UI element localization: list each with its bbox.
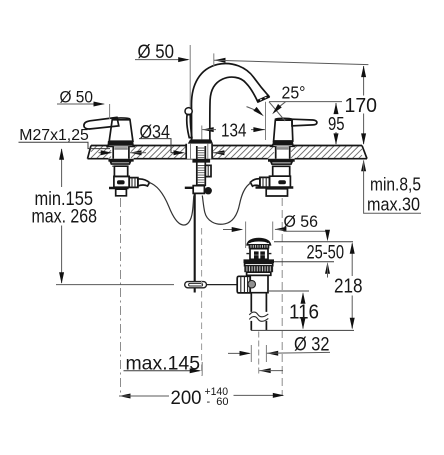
- drain tailpipe lower: [251, 321, 266, 330]
- right valve handle bell: [271, 118, 293, 146]
- spout gooseneck tube: [192, 64, 269, 141]
- Ø34 leader and arrows: [99, 139, 226, 156]
- spout backnut below deck: [192, 159, 210, 163]
- 25-degree arc arrowheads: [280, 102, 286, 107]
- spout base escutcheon at deck: [188, 140, 213, 144]
- pop-up rod extension dashed line: [201, 228, 203, 376]
- left valve block with slot: [114, 176, 129, 187]
- pop-up drain cap dome: [247, 239, 270, 245]
- svg-text:Ø 56: Ø 56: [284, 213, 319, 231]
- svg-text:218: 218: [334, 276, 363, 298]
- svg-text:134: 134: [221, 120, 247, 140]
- drain neck with holes: [246, 249, 271, 260]
- right valve bottom nut: [266, 189, 287, 196]
- spout side nipple: [205, 165, 211, 176]
- dimension max.145: [124, 362, 203, 376]
- drain centerline below pipe (dashed): [258, 332, 260, 375]
- dimension 95 vertical: [334, 103, 339, 145]
- pop-up knob on spout: [185, 108, 192, 138]
- drain tee body: [250, 275, 268, 292]
- right valve shank through deck: [275, 146, 290, 158]
- right valve centerline (dashed): [281, 198, 283, 395]
- deck bottom line: [88, 158, 368, 160]
- svg-text:min.8,5: min.8,5: [370, 175, 421, 195]
- drain ring below nut: [247, 272, 271, 275]
- pop-up rod ball joint: [205, 187, 212, 194]
- right valve block with slot: [270, 176, 291, 187]
- deck slab outline: [88, 146, 368, 159]
- svg-text:Ø34: Ø34: [140, 122, 171, 142]
- svg-text:Ø 50: Ø 50: [138, 42, 175, 63]
- dimension 134: [202, 126, 265, 140]
- 95 reference line at handle top level: [269, 101, 342, 103]
- arrow at drain centerline (rod-to-drain reference): [259, 368, 283, 373]
- left valve side outlet hex: [129, 178, 149, 188]
- left valve centerline (dash-dot): [120, 198, 122, 393]
- deck top line: [91, 145, 362, 147]
- svg-text:Ø 32: Ø 32: [294, 335, 330, 356]
- svg-text:200: 200: [171, 387, 202, 409]
- drain rod clamp nut on left: [237, 276, 255, 293]
- min.8,5/max.30 bracket: [361, 160, 421, 214]
- dimension 170 vertical: [361, 66, 366, 145]
- left valve backnut below deck: [108, 159, 133, 167]
- horizontal pop-up lever rod to drain: [207, 284, 238, 286]
- drain tailpipe upper: [251, 293, 266, 312]
- dimension 116 vertical: [301, 292, 306, 329]
- 116 reference line from drain body: [268, 290, 309, 292]
- svg-text:170: 170: [345, 95, 378, 117]
- flexible hose from left valve to spout: [149, 182, 194, 225]
- left valve bottom flange: [109, 187, 129, 189]
- left valve shank through deck: [113, 146, 130, 158]
- right valve backnut below deck: [268, 159, 295, 167]
- dimension Ø56: [223, 222, 330, 249]
- svg-text:max. 268: max. 268: [32, 206, 98, 227]
- dimension 200 with tolerances: [119, 393, 284, 399]
- dimension top Ø50: label line and arrows: [135, 45, 368, 107]
- left valve handle bell: [107, 118, 133, 146]
- 25-50 upper line A: [274, 241, 353, 243]
- 25-50 lower line B: [274, 261, 334, 263]
- dimension 218 vertical: [350, 242, 355, 329]
- svg-text:25-50: 25-50: [307, 242, 345, 263]
- dimension left Ø50 leader: [57, 102, 110, 120]
- drain washer below flange: [245, 263, 273, 266]
- pipe break squiggle: [249, 312, 268, 321]
- flexible hose from right valve to spout: [202, 183, 251, 224]
- deck left cut edge: [88, 146, 92, 159]
- countertop deck hatching: [91, 146, 362, 159]
- pop-up vertical rod: [194, 194, 196, 293]
- svg-text:25°: 25°: [282, 83, 306, 103]
- svg-text:Ø 50: Ø 50: [60, 89, 94, 107]
- right valve body cylinder: [273, 166, 290, 176]
- left valve lever: [84, 117, 119, 129]
- left valve body cylinder: [114, 166, 127, 176]
- right valve lever: [292, 119, 317, 126]
- right valve side outlet hex pointing left: [250, 177, 269, 187]
- svg-text:M27x1,25: M27x1,25: [19, 127, 89, 144]
- svg-text:max.30: max.30: [367, 195, 420, 215]
- spout aerator face: [257, 96, 270, 102]
- drain ribbed lock nut: [244, 266, 273, 273]
- svg-text:- 60: - 60: [207, 396, 229, 408]
- pop-up rod coupler link: [185, 282, 207, 288]
- drain wide flange: [244, 259, 275, 263]
- pipe end reference line: [251, 329, 354, 331]
- spout escutcheon walls through deck: [186, 144, 212, 159]
- M27x1,25 leader line: [19, 142, 111, 148]
- 25-50 arrows: [325, 230, 330, 278]
- svg-text:max.145: max.145: [126, 354, 201, 375]
- deck right cut edge: [362, 146, 367, 159]
- dimension min.155/max.268 vertical: [56, 148, 174, 284]
- spout threaded shank: [197, 146, 206, 186]
- dimension Ø32: [228, 345, 330, 362]
- svg-text:95: 95: [328, 113, 345, 134]
- left valve bottom nut: [116, 189, 127, 196]
- drain knurled ring: [249, 245, 270, 249]
- svg-text:116: 116: [289, 302, 319, 324]
- 25-degree outlet angle line: [269, 102, 285, 121]
- 25-degree vertical reference (spout tip extension): [265, 102, 267, 140]
- pop-up rod clamp: [185, 186, 205, 194]
- right valve bottom flange: [256, 186, 294, 189]
